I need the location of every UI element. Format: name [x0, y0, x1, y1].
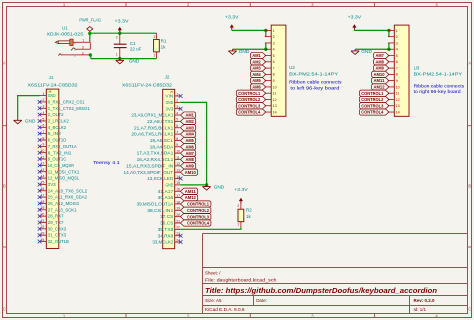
junction at U2 pin 4: [264, 48, 267, 51]
wire U1 pin 2 to bottom rail: [89, 55, 92, 59]
svg-text:XDJK-0051-02S: XDJK-0051-02S: [47, 31, 84, 36]
svg-text:A: A: [468, 61, 471, 66]
svg-text:5: 5: [176, 118, 178, 122]
junction at U2 pin 1: [264, 29, 267, 32]
power flag PWR_FLAG: [79, 17, 101, 33]
svg-text:20,A6,TX5,LRCLK1: 20,A6,TX5,LRCLK1: [131, 132, 174, 137]
svg-text:X6S11FV-24-C85D32: X6S11FV-24-C85D32: [28, 83, 79, 88]
svg-text:21,A7,RX5,BCLK1: 21,A7,RX5,BCLK1: [134, 125, 174, 130]
svg-text:+3.3V: +3.3V: [225, 15, 239, 20]
wire jumper U3 pin 1 to pin 2: [388, 30, 390, 36]
svg-text:5: 5: [396, 54, 398, 58]
svg-text:2: 2: [82, 51, 84, 55]
svg-text:Rev: 0.2.0: Rev: 0.2.0: [414, 298, 436, 303]
global label CONTROL3 (U2): [236, 103, 265, 109]
svg-text:16: 16: [176, 188, 180, 192]
svg-text:9: 9: [273, 79, 275, 83]
svg-text:8: 8: [273, 73, 275, 77]
svg-text:14,A0,TX3,SPDIF_OUT: 14,A0,TX3,SPDIF_OUT: [124, 170, 174, 175]
svg-text:7: 7: [176, 130, 178, 134]
junction at U1 pin 2: [89, 53, 92, 56]
global label CONTROL2 (U3): [359, 96, 389, 102]
svg-text:AM6: AM6: [186, 144, 195, 149]
svg-text:Size: A5: Size: A5: [205, 298, 222, 303]
svg-text:AM12: AM12: [185, 195, 197, 200]
svg-text:1: 1: [396, 29, 398, 33]
svg-text:10: 10: [273, 85, 277, 89]
svg-text:CONTROL2: CONTROL2: [361, 97, 384, 102]
svg-text:24: 24: [176, 238, 180, 242]
svg-text:7: 7: [42, 130, 44, 134]
svg-text:18,A4,SDA: 18,A4,SDA: [150, 144, 174, 149]
svg-text:R1: R1: [161, 39, 167, 44]
svg-text:X6S11FV-24-C85D32: X6S11FV-24-C85D32: [122, 83, 173, 88]
svg-text:2: 2: [42, 98, 44, 102]
svg-text:GND: GND: [361, 49, 372, 55]
svg-text:3_LRCLK2: 3_LRCLK2: [48, 119, 70, 124]
global label AM5 (J2): [180, 137, 195, 143]
global label CONTROL2 (U2): [236, 96, 265, 102]
svg-text:to left 96-key board: to left 96-key board: [290, 85, 340, 90]
wire +3.3V to U2 pin 1: [232, 29, 266, 31]
svg-text:Date:: Date:: [256, 298, 267, 303]
global label AM11 (J2): [180, 188, 197, 194]
svg-text:3V3: 3V3: [48, 182, 56, 187]
svg-text:25_A11_RX6_SDA2: 25_A11_RX6_SDA2: [48, 195, 88, 200]
global label AM8 (J2): [180, 156, 195, 162]
svg-text:File: daughterboard.kicad_sch: File: daughterboard.kicad_sch: [205, 278, 277, 283]
svg-text:1k: 1k: [161, 45, 167, 50]
wire J2 pin 22 to R2: [180, 227, 241, 229]
svg-text:9: 9: [396, 79, 398, 83]
svg-text:5: 5: [42, 117, 44, 121]
svg-text:1_TX1_CTX2_MISO1: 1_TX1_CTX2_MISO1: [48, 106, 91, 111]
svg-text:AM11: AM11: [185, 189, 197, 194]
svg-text:41,A17: 41,A17: [158, 189, 174, 194]
svg-text:22 uF: 22 uF: [130, 46, 142, 51]
svg-text:AM10: AM10: [374, 72, 386, 77]
svg-text:AM7: AM7: [376, 53, 385, 58]
global label AM1 (J2): [180, 112, 195, 118]
svg-text:12_MISO_MQSL: 12_MISO_MQSL: [48, 176, 80, 181]
svg-text:3: 3: [396, 41, 398, 45]
svg-text:1: 1: [237, 223, 239, 227]
svg-text:Ribbon cable connects: Ribbon cable connects: [289, 80, 342, 85]
svg-text:6: 6: [273, 60, 275, 64]
resistor R1 1k: [154, 33, 167, 58]
global label AM3 (J2): [180, 125, 195, 131]
svg-text:CONTROL3: CONTROL3: [361, 103, 384, 108]
svg-text:2: 2: [396, 35, 398, 39]
svg-text:1: 1: [154, 54, 156, 58]
svg-text:1: 1: [82, 39, 84, 43]
ground at U2 pin 4: [228, 49, 249, 55]
svg-text:37,CS: 37,CS: [160, 214, 173, 219]
svg-text:11: 11: [176, 156, 180, 160]
ground at U3 pin 4: [351, 49, 372, 55]
svg-text:36,CS: 36,CS: [160, 221, 173, 226]
global label AM6 (J2): [180, 144, 195, 150]
global label AM3 (U2): [251, 65, 266, 71]
svg-text:C: C: [3, 307, 6, 312]
svg-text:AM5: AM5: [252, 78, 261, 83]
svg-text:39,MISO1,OUT1A: 39,MISO1,OUT1A: [137, 202, 174, 207]
svg-text:GND: GND: [239, 49, 250, 55]
svg-text:2: 2: [116, 36, 118, 40]
svg-text:23: 23: [176, 232, 180, 236]
svg-text:4_BCLK2: 4_BCLK2: [48, 125, 67, 130]
svg-text:13: 13: [396, 104, 400, 108]
wire J1 pin 1 to GND: [18, 96, 40, 119]
svg-text:to right 96-key board: to right 96-key board: [414, 89, 462, 94]
svg-text:AM12: AM12: [374, 85, 386, 90]
note: Teensy 4.1: [93, 160, 120, 165]
wire J2 pin 2 down to GND junction: [180, 102, 207, 185]
wire jumper U2 pin 3 to pin 4: [265, 43, 267, 49]
svg-text:4: 4: [176, 111, 178, 115]
svg-text:14: 14: [396, 110, 400, 114]
svg-text:35,TX8: 35,TX8: [158, 227, 174, 232]
global label CONTROL4 (J2): [180, 220, 211, 226]
svg-text:AM8: AM8: [376, 59, 385, 64]
svg-text:C: C: [468, 307, 471, 312]
svg-text:12: 12: [396, 98, 400, 102]
global label AM2 (U2): [251, 59, 266, 65]
svg-text:AM1: AM1: [252, 53, 261, 58]
svg-text:1: 1: [42, 92, 44, 96]
svg-text:32_OUT1B: 32_OUT1B: [48, 239, 69, 244]
svg-text:KiCad E.D.A. 9.0.6: KiCad E.D.A. 9.0.6: [205, 307, 245, 312]
global label AM7 (J2): [180, 150, 195, 156]
global label CONTROL1 (U2): [236, 90, 265, 96]
svg-text:AM4: AM4: [252, 72, 261, 77]
svg-text:17: 17: [176, 194, 180, 198]
global label CONTROL1 (J2): [180, 201, 211, 207]
global label AM6 (U2): [251, 84, 266, 90]
note: ribbon cable left: [289, 80, 342, 91]
svg-text:AM7: AM7: [186, 151, 195, 156]
svg-text:13: 13: [273, 104, 277, 108]
svg-text:22: 22: [176, 226, 180, 230]
svg-text:13: 13: [176, 169, 180, 173]
svg-text:AM6: AM6: [252, 85, 261, 90]
svg-text:GND: GND: [48, 93, 56, 98]
svg-text:14: 14: [176, 175, 180, 179]
svg-text:CONTROL1: CONTROL1: [361, 91, 384, 96]
svg-text:1: 1: [116, 53, 118, 57]
svg-text:CONTROL1: CONTROL1: [238, 91, 261, 96]
global label AM9 (J2): [180, 163, 195, 169]
global label AM5 (U2): [251, 78, 266, 84]
global label AM4 (J2): [180, 131, 195, 137]
svg-text:8: 8: [42, 136, 44, 140]
svg-text:11: 11: [273, 92, 277, 96]
svg-text:26_A12_MOSI1: 26_A12_MOSI1: [48, 201, 80, 206]
svg-text:BX-PM2.54-1-14PY: BX-PM2.54-1-14PY: [414, 71, 463, 76]
connector J1 X6S11FV-24-C85D32: [28, 75, 91, 248]
svg-text:8_TX2_IN1: 8_TX2_IN1: [48, 150, 72, 155]
power +3.3V above R2: [234, 187, 248, 204]
svg-text:22,A8,CTX1: 22,A8,CTX1: [147, 119, 174, 124]
svg-text:AM3: AM3: [186, 125, 195, 130]
svg-text:4: 4: [42, 111, 44, 115]
svg-text:4: 4: [273, 48, 275, 52]
wire U3 pin 4 to GND: [355, 48, 389, 50]
global label CONTROL3 (J2): [180, 214, 211, 220]
svg-text:27_A13_SCK1: 27_A13_SCK1: [48, 207, 77, 212]
svg-text:B: B: [468, 184, 471, 189]
junction at U3 pin 4: [387, 48, 390, 51]
svg-text:28_RX7: 28_RX7: [48, 214, 64, 219]
title block: [203, 234, 468, 314]
wire +3.3V top rail: [90, 32, 157, 34]
svg-text:Ribbon cable connects: Ribbon cable connects: [414, 83, 465, 88]
wire +3.3V to U3 pin 1: [354, 29, 389, 31]
global label AM11 (U3): [372, 78, 389, 84]
svg-text:AM10: AM10: [185, 170, 197, 175]
svg-text:34,RX8: 34,RX8: [158, 233, 174, 238]
junction at C1 bottom: [118, 57, 121, 60]
svg-text:GND: GND: [214, 185, 225, 191]
svg-text:10: 10: [396, 85, 400, 89]
svg-text:AM9: AM9: [186, 163, 195, 168]
svg-text:30_CRX3: 30_CRX3: [48, 226, 67, 231]
global label AM10 (J2): [180, 169, 197, 175]
global label CONTROL2 (J2): [180, 207, 211, 213]
svg-text:10: 10: [176, 149, 180, 153]
wire rail to U1 pin 1: [89, 33, 91, 42]
svg-text:GND: GND: [25, 118, 36, 124]
resistor R2 1k: [237, 204, 252, 227]
svg-text:AM1: AM1: [186, 113, 195, 118]
svg-text:Id: 1/1: Id: 1/1: [414, 307, 427, 312]
svg-text:15,A1,RX3,SPDIF_IN: 15,A1,RX3,SPDIF_IN: [126, 163, 173, 168]
svg-text:U1: U1: [62, 26, 68, 31]
svg-text:38,CS1,IN1: 38,CS1,IN1: [147, 208, 174, 213]
svg-text:+3.3V: +3.3V: [348, 15, 362, 20]
svg-text:B: B: [3, 184, 6, 189]
svg-text:CONTROL2: CONTROL2: [238, 97, 261, 102]
global label AM1 (U2): [251, 52, 266, 58]
svg-text:12: 12: [176, 162, 180, 166]
svg-text:AM2: AM2: [252, 59, 261, 64]
svg-text:AM5: AM5: [186, 138, 195, 143]
global label AM12 (J2): [180, 195, 197, 201]
svg-text:AM3: AM3: [252, 66, 261, 71]
svg-text:3V3: 3V3: [165, 106, 173, 111]
global label AM4 (U2): [251, 71, 266, 77]
junction at C1 top: [118, 32, 121, 35]
svg-text:J2: J2: [165, 75, 170, 80]
svg-text:0_RX1_CRX2_CS1: 0_RX1_CRX2_CS1: [48, 99, 85, 104]
svg-text:GND: GND: [165, 182, 173, 187]
wire U2 pin 4 to GND: [233, 48, 266, 50]
svg-text:GND: GND: [165, 100, 173, 105]
svg-text:40,A16: 40,A16: [158, 195, 174, 200]
power +3.3V above U3: [348, 15, 362, 31]
global label AM7 (U3): [374, 52, 389, 58]
svg-text:VIN: VIN: [165, 94, 173, 99]
svg-text:+3.3V: +3.3V: [234, 187, 248, 192]
header U2 BX-PM2.54-1-14PY: [265, 25, 338, 116]
svg-text:13,SCK,LED: 13,SCK,LED: [147, 176, 173, 181]
svg-text:AM4: AM4: [186, 132, 195, 137]
svg-text:U2: U2: [289, 65, 295, 70]
svg-text:21: 21: [176, 219, 180, 223]
svg-text:31_CTX3: 31_CTX3: [48, 233, 67, 238]
global label CONTROL1 (U3): [359, 90, 389, 96]
junction at J2 GND node: [205, 183, 208, 186]
global label AM8 (U3): [374, 59, 389, 65]
svg-text:20: 20: [176, 213, 180, 217]
svg-text:3: 3: [273, 41, 275, 45]
svg-text:24_A10_TX6_SCL2: 24_A10_TX6_SCL2: [48, 188, 88, 193]
header U3 BX-PM2.54-1-14PY: [388, 25, 462, 116]
global label AM9 (U3): [374, 65, 389, 71]
svg-text:AM11: AM11: [374, 78, 386, 83]
svg-text:PWR_FLAG: PWR_FLAG: [79, 17, 101, 22]
svg-text:17,A3,TX4,SDA1: 17,A3,TX4,SDA1: [137, 151, 174, 156]
svg-text:AM9: AM9: [376, 66, 385, 71]
svg-text:A: A: [3, 61, 6, 66]
svg-text:6: 6: [396, 60, 398, 64]
svg-text:Sheet: /: Sheet: /: [205, 271, 221, 276]
ground at J1 pin 1: [14, 118, 36, 124]
svg-text:14: 14: [273, 110, 277, 114]
svg-text:Teensy 4.1: Teensy 4.1: [93, 160, 120, 165]
global label AM10 (U3): [372, 71, 389, 77]
capacitor C1 22 uF: [114, 33, 142, 58]
svg-text:2: 2: [237, 204, 239, 208]
svg-text:12: 12: [273, 98, 277, 102]
svg-text:5_IN2: 5_IN2: [48, 131, 62, 136]
svg-text:Title: https://github.com/Dump: Title: https://github.com/DumpsterDoofus…: [205, 288, 437, 295]
svg-text:R2: R2: [246, 207, 252, 212]
ground below C1: [116, 58, 140, 64]
svg-text:33,MCLK2: 33,MCLK2: [152, 240, 174, 245]
svg-text:7: 7: [273, 66, 275, 70]
svg-text:23,A9,CRX1_MCLK1: 23,A9,CRX1_MCLK1: [131, 113, 174, 118]
svg-text:2_OUT2: 2_OUT2: [48, 112, 64, 117]
svg-text:10_CS_MQSR: 10_CS_MQSR: [48, 163, 74, 168]
svg-text:16,A2,RX4,SCL1: 16,A2,RX4,SCL1: [137, 157, 174, 162]
svg-text:6: 6: [176, 124, 178, 128]
svg-text:2: 2: [176, 99, 178, 103]
wire J2 pin 15 to GND junction: [180, 184, 207, 186]
connector J2 X6S11FV-24-C85D32 (Teensy socket): [122, 75, 183, 249]
global label CONTROL4 (U3): [359, 109, 389, 115]
svg-text:3: 3: [82, 46, 84, 50]
svg-text:GND: GND: [129, 58, 140, 64]
wire bottom GND rail: [91, 58, 157, 60]
svg-text:8: 8: [176, 137, 178, 141]
svg-text:5: 5: [273, 54, 275, 58]
svg-text:+3.3V: +3.3V: [115, 18, 129, 23]
junction at U3 pin 1: [387, 29, 390, 32]
svg-text:6_OUT1D: 6_OUT1D: [48, 138, 66, 143]
note: ribbon cable right: [414, 83, 465, 94]
svg-text:2: 2: [273, 35, 275, 39]
global label AM12 (U3): [372, 84, 389, 90]
wire jumper U2 pin 1 to pin 2: [265, 30, 267, 36]
svg-text:AM2: AM2: [186, 119, 195, 124]
svg-text:8: 8: [396, 73, 398, 77]
svg-text:1k: 1k: [246, 214, 252, 219]
svg-text:18: 18: [176, 200, 180, 204]
svg-text:CONTROL3: CONTROL3: [238, 103, 261, 108]
svg-text:9: 9: [42, 143, 44, 147]
ground at J2 GND node: [203, 185, 225, 191]
global label CONTROL3 (U3): [359, 103, 389, 109]
power +3.3V above U2: [225, 15, 239, 31]
svg-text:CONTROL2: CONTROL2: [187, 208, 210, 213]
svg-text:2: 2: [154, 35, 156, 39]
svg-text:9_OUT1C: 9_OUT1C: [48, 157, 66, 162]
global label CONTROL4 (U2): [236, 109, 265, 115]
svg-text:15: 15: [176, 181, 180, 185]
global label AM2 (J2): [180, 118, 195, 124]
svg-text:7: 7: [396, 66, 398, 70]
audio jack U1 XDJK-0051-02S: [47, 26, 91, 58]
svg-text:19,A5,SCL: 19,A5,SCL: [150, 138, 174, 143]
svg-text:29_TX7: 29_TX7: [48, 220, 64, 225]
svg-text:19: 19: [176, 207, 180, 211]
svg-text:11: 11: [396, 92, 400, 96]
svg-text:9: 9: [176, 143, 178, 147]
svg-text:1: 1: [273, 29, 275, 33]
svg-text:CONTROL4: CONTROL4: [187, 221, 210, 226]
svg-text:CONTROL4: CONTROL4: [238, 110, 261, 115]
power +3.3V above C1: [115, 18, 129, 33]
svg-text:AM8: AM8: [186, 157, 195, 162]
svg-text:7_RX2_OUT1A: 7_RX2_OUT1A: [48, 144, 77, 149]
svg-text:CONTROL1: CONTROL1: [187, 202, 210, 207]
svg-text:11_MOSI_CTX1: 11_MOSI_CTX1: [48, 169, 80, 174]
svg-text:BX-PM2.54-1-14PY: BX-PM2.54-1-14PY: [289, 72, 338, 77]
svg-text:U3: U3: [414, 65, 420, 70]
svg-text:1: 1: [176, 92, 178, 96]
svg-text:CONTROL4: CONTROL4: [361, 110, 384, 115]
svg-text:3: 3: [42, 105, 44, 109]
svg-text:6: 6: [42, 124, 44, 128]
svg-text:CONTROL3: CONTROL3: [187, 214, 210, 219]
svg-text:J1: J1: [49, 75, 54, 80]
junction at PWR_FLAG node: [88, 32, 91, 35]
svg-text:3: 3: [176, 105, 178, 109]
svg-text:4: 4: [396, 48, 398, 52]
wire jumper U3 pin 3 to pin 4: [388, 43, 390, 49]
